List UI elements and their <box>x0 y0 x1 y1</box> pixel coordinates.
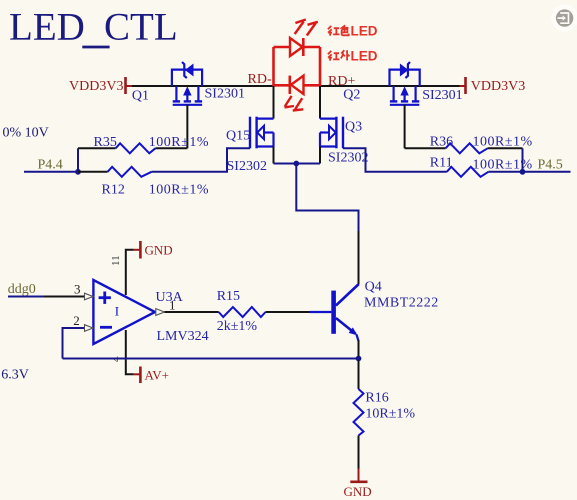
wire R36 right to node <box>488 147 523 149</box>
power AV+ bar bottom <box>133 373 140 375</box>
ground GND bar top <box>133 249 140 251</box>
svg-text:R35: R35 <box>94 135 117 150</box>
body diode of Q1 <box>182 62 193 78</box>
wire LED right corner down to Q3 drain <box>319 86 321 119</box>
pin 11 to GND <box>126 250 134 295</box>
power VDD3V3 left <box>69 77 133 94</box>
wire pin 2 <box>63 328 85 359</box>
wire node to R16 <box>358 361 360 390</box>
pin 3 arrowhead <box>85 293 94 300</box>
wire R11 to P4.5 <box>488 171 570 173</box>
resistor R12 <box>108 167 152 177</box>
wire VDD to Q1 to RD- rail <box>132 85 274 87</box>
resistor R36 <box>446 143 488 153</box>
wire node to R12 <box>78 171 108 173</box>
svg-text:LED: LED <box>9 6 85 49</box>
wire feedback from pin2 to emitter node <box>63 358 357 360</box>
svg-text:R16: R16 <box>365 391 388 406</box>
op-amp U3A LMV324 <box>93 241 208 383</box>
node junction P4.4 <box>75 169 81 175</box>
resistor R35 <box>116 143 156 153</box>
op-amp triangle <box>93 280 155 344</box>
wire R15 to Q4 base <box>266 311 311 313</box>
wire Q2 gate down <box>404 105 406 149</box>
svg-text:SI2302: SI2302 <box>328 151 368 166</box>
svg-text:100R±1%: 100R±1% <box>149 135 209 150</box>
wire right edge <box>319 47 322 87</box>
pin 4 to AV+ <box>126 330 134 374</box>
wire output to R15 <box>165 311 219 313</box>
LED D infrared: triangle <box>291 76 304 94</box>
svg-text:P4.4: P4.4 <box>38 158 63 173</box>
wire Q15 source to common node <box>273 147 275 164</box>
wire Q2 gate row to R36 <box>405 147 446 149</box>
svg-text:ddg0: ddg0 <box>8 282 36 297</box>
wire node down and right to Q4 collector <box>296 164 358 233</box>
wire to R35 <box>78 147 116 149</box>
svg-text:R12: R12 <box>102 183 125 198</box>
svg-text:10R±1%: 10R±1% <box>365 407 415 422</box>
node junction P4.5 <box>520 169 526 175</box>
LED pair red loop <box>274 20 321 111</box>
node junction emitter/feedback <box>356 356 362 362</box>
svg-text:100R±1%: 100R±1% <box>473 158 533 173</box>
wire bottom rail <box>274 84 290 87</box>
LED D red: triangle <box>290 38 303 56</box>
svg-text:LED: LED <box>351 23 378 38</box>
svg-text:VDD3V3: VDD3V3 <box>69 79 123 94</box>
svg-text:Q15: Q15 <box>226 129 250 144</box>
transistor Q1 SI2301 P-MOSFET <box>172 70 202 105</box>
resistor R11 <box>447 167 489 177</box>
svg-text:R11: R11 <box>430 156 453 171</box>
svg-text:Q1: Q1 <box>132 89 149 104</box>
svg-text:3: 3 <box>74 282 81 297</box>
svg-text:2: 2 <box>73 313 80 328</box>
svg-text:RD+: RD+ <box>328 74 355 89</box>
svg-text:1: 1 <box>169 297 176 312</box>
svg-text:2k±1%: 2k±1% <box>217 319 258 334</box>
resistor R15 <box>219 307 266 317</box>
svg-text:MMBT2222: MMBT2222 <box>364 296 439 311</box>
svg-text:0% 10V: 0% 10V <box>3 125 49 140</box>
wire P4.4 lead <box>24 171 78 173</box>
svg-text:SI2302: SI2302 <box>227 159 267 174</box>
svg-text:SI2301: SI2301 <box>422 88 462 103</box>
arrows of infrared LED <box>285 96 304 111</box>
svg-text:AV+: AV+ <box>145 368 169 383</box>
resistor R16 <box>354 389 364 436</box>
svg-text:Q4: Q4 <box>365 280 382 295</box>
wire ddg0 to pin 3 <box>8 296 44 298</box>
wire common source rail <box>274 163 321 165</box>
wire top rail <box>274 46 291 49</box>
svg-text:LED: LED <box>351 48 378 63</box>
arrows of red LED <box>295 20 318 36</box>
svg-text:100R±1%: 100R±1% <box>473 135 533 150</box>
svg-text:6.3V: 6.3V <box>1 367 29 382</box>
wire R35 to Q1 gate <box>155 147 187 149</box>
body diode of Q2 <box>400 62 410 78</box>
pin 2 arrowhead <box>85 325 94 332</box>
svg-text:SI2301: SI2301 <box>205 87 245 102</box>
wire LED left corner down to Q15 drain <box>273 86 275 119</box>
label infrared LED (Chinese) <box>328 50 350 60</box>
svg-text:R36: R36 <box>430 135 453 150</box>
ground GND bottom <box>358 469 360 482</box>
svg-text:11: 11 <box>110 255 122 266</box>
svg-text:VDD3V3: VDD3V3 <box>471 79 525 94</box>
svg-text:I: I <box>115 304 119 319</box>
transistor Q2 SI2301 P-MOSFET <box>390 70 420 105</box>
svg-text:100R±1%: 100R±1% <box>149 183 209 198</box>
svg-text:Q2: Q2 <box>343 88 360 103</box>
transistor Q3 SI2302 N-MOSFET <box>320 117 343 149</box>
svg-text:Q3: Q3 <box>345 120 362 135</box>
node junction sources <box>293 161 299 167</box>
svg-text:RD-: RD- <box>248 72 272 87</box>
svg-text:GND: GND <box>145 243 173 258</box>
wire Q3 gate to R11 <box>343 148 447 172</box>
svg-text:R15: R15 <box>217 289 240 304</box>
wire R16 to GND <box>358 436 360 470</box>
wire Q1 gate down <box>186 105 188 149</box>
label red LED (Chinese) <box>328 25 349 35</box>
wire R12 to Q15 gate <box>152 148 251 172</box>
wire node up to R35 row <box>77 148 79 172</box>
power VDD3V3 right <box>460 77 526 94</box>
svg-text:CTL: CTL <box>104 6 178 49</box>
svg-text:GND: GND <box>344 484 372 499</box>
transistor Q15 SI2302 N-MOSFET <box>250 117 274 149</box>
wire Q3 source to common node <box>319 147 321 164</box>
pin 1 output arrowhead <box>156 309 165 316</box>
svg-text:P4.5: P4.5 <box>538 158 563 173</box>
wire left edge <box>272 47 275 87</box>
wire emitter to node <box>358 340 360 356</box>
svg-text:LMV324: LMV324 <box>157 329 209 344</box>
transistor Q4 MMBT2222 NPN <box>331 284 359 341</box>
wire RD+ rail to Q2 to VDD right <box>320 85 460 87</box>
watermark icon <box>551 5 577 32</box>
